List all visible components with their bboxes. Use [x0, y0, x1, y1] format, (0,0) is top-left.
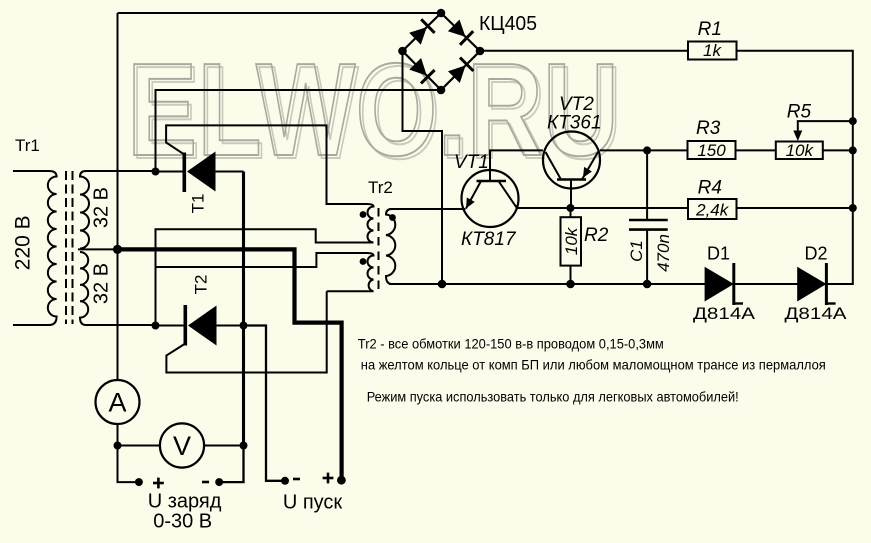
svg-text:Tr2 - все обмотки 120-150 в-в: Tr2 - все обмотки 120-150 в-в проводом 0…	[358, 337, 664, 352]
svg-text:КТ361: КТ361	[547, 113, 602, 134]
svg-text:ELWO.RU: ELWO.RU	[127, 36, 619, 183]
svg-text:Т2: Т2	[192, 275, 211, 295]
svg-text:1k: 1k	[703, 41, 722, 60]
svg-text:U заряд: U заряд	[148, 491, 222, 513]
svg-text:10k: 10k	[786, 141, 815, 160]
svg-text:470n: 470n	[654, 234, 673, 272]
svg-text:V: V	[173, 431, 191, 461]
svg-text:10k: 10k	[562, 226, 581, 255]
svg-text:220 В: 220 В	[12, 215, 35, 270]
svg-text:А: А	[108, 388, 126, 418]
svg-text:на желтом кольце от комп БП ил: на желтом кольце от комп БП или любом ма…	[361, 357, 826, 373]
svg-text:Режим пуска использовать тольк: Режим пуска использовать только для легк…	[367, 389, 739, 405]
svg-text:U пуск: U пуск	[283, 492, 343, 514]
svg-text:VT1: VT1	[454, 152, 489, 173]
svg-text:R5: R5	[787, 102, 812, 123]
svg-text:2,4k: 2,4k	[695, 201, 730, 220]
svg-text:КЦ405: КЦ405	[479, 13, 537, 35]
svg-text:R2: R2	[584, 225, 609, 246]
svg-text:КТ817: КТ817	[461, 229, 517, 250]
svg-text:Д814А: Д814А	[785, 305, 847, 323]
svg-text:150: 150	[697, 141, 726, 160]
svg-text:D2: D2	[805, 244, 828, 264]
svg-text:Д814А: Д814А	[693, 305, 755, 323]
svg-text:32 В: 32 В	[91, 187, 113, 228]
svg-text:D1: D1	[707, 244, 730, 264]
svg-text:32 В: 32 В	[91, 263, 113, 304]
svg-text:R1: R1	[698, 19, 722, 40]
svg-text:R3: R3	[696, 118, 721, 139]
svg-text:0-30 В: 0-30 В	[153, 511, 212, 533]
svg-text:C1: C1	[627, 240, 646, 262]
svg-text:Tr1: Tr1	[15, 136, 40, 155]
svg-text:Tr2: Tr2	[368, 178, 393, 197]
svg-text:Т1: Т1	[189, 194, 208, 214]
svg-text:R4: R4	[698, 178, 722, 199]
